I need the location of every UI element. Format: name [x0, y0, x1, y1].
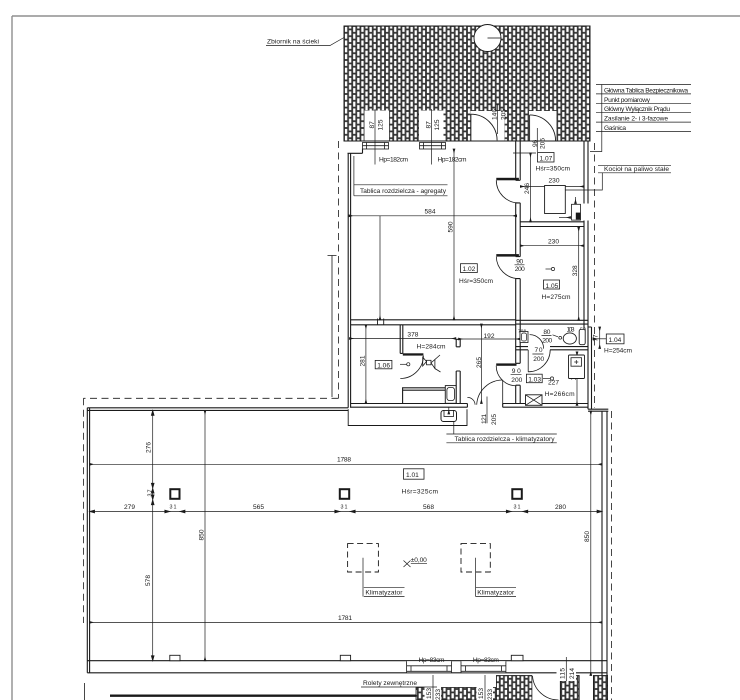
svg-text:265: 265: [476, 357, 483, 368]
svg-text:584: 584: [425, 208, 436, 215]
svg-text:Główny Wyłącznik Prądu: Główny Wyłącznik Prądu: [604, 106, 670, 113]
svg-text:378: 378: [407, 331, 418, 338]
svg-text:153: 153: [426, 688, 433, 699]
svg-text:Tablica rozdzielcza - klimatyz: Tablica rozdzielcza - klimatyzatory: [455, 436, 556, 443]
svg-text:280: 280: [555, 504, 566, 511]
svg-text:H=254cm: H=254cm: [604, 348, 633, 355]
svg-text:153: 153: [478, 688, 485, 699]
svg-text:Hp=182cm: Hp=182cm: [379, 157, 409, 164]
svg-text:1.01: 1.01: [406, 472, 419, 479]
svg-text:233: 233: [435, 689, 442, 700]
svg-text:H=284cm: H=284cm: [417, 344, 447, 351]
svg-text:Hp=83cm: Hp=83cm: [473, 657, 500, 664]
svg-text:70: 70: [535, 347, 543, 354]
svg-text:Tablica rozdzielcza - agregaty: Tablica rozdzielcza - agregaty: [360, 188, 447, 195]
svg-text:1788: 1788: [337, 457, 351, 464]
svg-text:H=275cm: H=275cm: [542, 294, 572, 301]
svg-text:Główna Tablica Bezpiecznikowa: Główna Tablica Bezpiecznikowa: [604, 87, 688, 94]
svg-text:115: 115: [560, 668, 567, 679]
svg-text:Hśr=325cm: Hśr=325cm: [402, 488, 439, 495]
svg-text:87: 87: [426, 121, 433, 129]
svg-text:192: 192: [484, 333, 495, 340]
svg-text:230: 230: [548, 239, 559, 246]
svg-text:850: 850: [198, 529, 205, 540]
svg-text:1.04: 1.04: [609, 337, 622, 344]
svg-text:590: 590: [447, 221, 454, 232]
svg-text:31: 31: [341, 504, 348, 510]
svg-text:Klimatyzator: Klimatyzator: [365, 590, 403, 597]
svg-text:1.06: 1.06: [377, 363, 390, 370]
svg-text:227: 227: [548, 379, 559, 386]
svg-text:37: 37: [148, 490, 154, 497]
svg-text:1.02: 1.02: [463, 266, 476, 273]
svg-text:Gaśnica: Gaśnica: [604, 125, 626, 132]
svg-text:125: 125: [378, 119, 385, 130]
svg-text:±0,00: ±0,00: [411, 557, 427, 564]
svg-text:Hp=182cm: Hp=182cm: [438, 157, 468, 164]
svg-text:578: 578: [145, 575, 152, 586]
svg-text:233: 233: [487, 689, 494, 700]
svg-text:1.07: 1.07: [540, 155, 553, 162]
svg-text:H=266cm: H=266cm: [545, 391, 576, 398]
svg-text:276: 276: [145, 442, 152, 453]
svg-text:205: 205: [491, 414, 498, 425]
svg-text:31: 31: [514, 504, 521, 510]
svg-text:146: 146: [491, 109, 498, 120]
svg-text:214: 214: [569, 668, 576, 679]
svg-text:200: 200: [542, 337, 552, 344]
svg-text:1781: 1781: [338, 615, 352, 622]
svg-text:328: 328: [572, 265, 579, 276]
svg-text:125: 125: [434, 119, 441, 130]
svg-text:90: 90: [512, 368, 521, 375]
svg-text:230: 230: [549, 177, 560, 184]
svg-text:568: 568: [423, 504, 434, 511]
svg-text:31: 31: [170, 504, 177, 510]
svg-text:200: 200: [533, 356, 544, 363]
svg-text:565: 565: [253, 504, 264, 511]
svg-text:279: 279: [124, 504, 135, 511]
svg-text:Hśr=350cm: Hśr=350cm: [536, 166, 571, 173]
svg-text:Klimatyzator: Klimatyzator: [477, 590, 515, 597]
svg-text:Kocioł na paliwo stałe: Kocioł na paliwo stałe: [604, 166, 669, 173]
svg-text:1.05: 1.05: [546, 283, 559, 290]
svg-text:87: 87: [369, 121, 376, 129]
svg-text:Hśr=350cm: Hśr=350cm: [459, 278, 494, 285]
svg-text:Zbiornik na ścieki: Zbiornik na ścieki: [267, 39, 320, 46]
svg-text:80: 80: [543, 329, 550, 336]
svg-text:Zasilanie 2- i 3-fazowe: Zasilanie 2- i 3-fazowe: [604, 116, 668, 123]
svg-text:200: 200: [515, 266, 525, 273]
svg-text:205: 205: [539, 138, 546, 149]
svg-text:Hp=83cm: Hp=83cm: [419, 657, 446, 664]
svg-text:1.03: 1.03: [528, 377, 541, 384]
svg-text:205: 205: [500, 109, 507, 120]
svg-text:77: 77: [593, 334, 600, 341]
svg-text:246: 246: [524, 183, 531, 194]
svg-text:Rolety zewnętrzne: Rolety zewnętrzne: [363, 680, 417, 687]
svg-text:281: 281: [360, 355, 367, 366]
svg-text:96: 96: [532, 139, 539, 147]
svg-text:Punkt pomiarowy: Punkt pomiarowy: [604, 97, 651, 104]
svg-text:200: 200: [511, 377, 522, 384]
svg-text:850: 850: [584, 531, 591, 542]
